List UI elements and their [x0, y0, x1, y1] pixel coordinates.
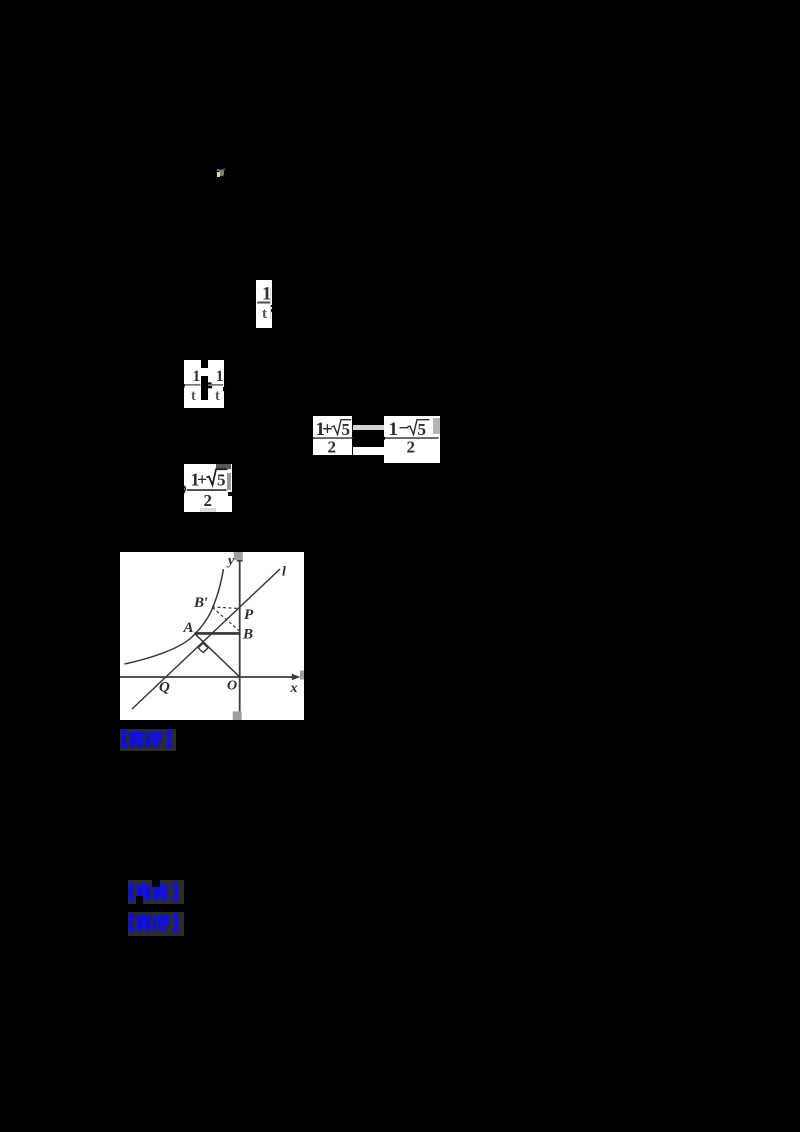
svg-text:P: P: [244, 607, 254, 623]
comma: [184, 486, 186, 493]
svg-text:l: l: [282, 565, 286, 580]
svg-text:−: −: [399, 418, 410, 439]
formula C: (1+sqrt5)/2 gray (1-sqrt5)/2: [313, 416, 353, 455]
svg-text:5: 5: [217, 470, 226, 489]
svg-text:B: B: [242, 627, 253, 643]
svg-text:2: 2: [407, 438, 416, 457]
right edge tick: [223, 387, 225, 391]
svg-text:t: t: [215, 388, 220, 404]
svg-text:2: 2: [328, 438, 337, 457]
svg-text:5: 5: [418, 420, 427, 439]
tiny icon: [216, 168, 225, 177]
equals black: [208, 382, 212, 384]
AO segment: [194, 634, 239, 678]
labels: [159, 554, 298, 697]
svg-text:t: t: [191, 388, 196, 404]
x-axis: [120, 676, 293, 678]
formula D: ,(1+sqrt5)/2: [184, 464, 232, 513]
dashed B' to P: [212, 607, 239, 609]
svg-text:1: 1: [389, 419, 399, 440]
line l: [132, 569, 280, 709]
left tick: [311, 437, 313, 440]
formula A: 1/t: [256, 280, 272, 329]
blue label 3: [128, 912, 184, 936]
svg-text:A: A: [182, 620, 193, 636]
svg-text:t: t: [262, 306, 267, 322]
right angle mark: [198, 643, 208, 652]
blue label 1: [120, 729, 176, 752]
svg-text:y: y: [226, 554, 235, 569]
svg-text:1: 1: [193, 368, 201, 385]
graph: [120, 552, 304, 720]
svg-text:+: +: [197, 469, 207, 489]
dashed B' to B: [212, 608, 239, 631]
AB segment: [194, 632, 239, 635]
svg-text:5: 5: [342, 420, 351, 439]
svg-text:O: O: [227, 679, 237, 694]
right tick: [383, 437, 385, 440]
svg-text:x: x: [289, 681, 297, 696]
blue label 2: [128, 880, 184, 904]
svg-text:Q: Q: [159, 680, 170, 696]
left edge tick: [183, 384, 185, 388]
hyperbola: [124, 569, 223, 664]
svg-text:2: 2: [204, 491, 213, 510]
svg-text:1: 1: [216, 368, 224, 385]
gray blocks: [233, 552, 242, 560]
y-axis: [238, 558, 240, 712]
right-edge black marks: [271, 305, 273, 308]
formula B: 1/t = 1/t: [184, 360, 201, 408]
svg-text:B′: B′: [193, 595, 208, 611]
